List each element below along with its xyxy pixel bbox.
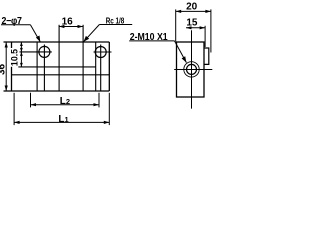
side view tab <box>204 48 209 64</box>
thread hole inner circle <box>187 64 197 74</box>
svg-text:L1: L1 <box>58 114 68 125</box>
svg-text:Rc 1/8: Rc 1/8 <box>106 15 125 25</box>
arrow 10.5 mid down <box>20 48 23 52</box>
front view bottom edge (with 36 extension) <box>4 90 110 92</box>
arrow L2 right <box>94 103 100 106</box>
front view port axis line <box>82 25 84 91</box>
svg-text:2-M10 X1: 2-M10 X1 <box>130 32 168 43</box>
hole H2 vertical centerline <box>100 45 102 92</box>
arrow 20 right <box>205 10 211 13</box>
arrow 10.5 mid up <box>20 52 23 56</box>
dimension 20 left extension <box>175 9 177 41</box>
arrow 10.5 bottom <box>20 63 23 67</box>
svg-text:36: 36 <box>0 64 8 76</box>
thread hole vertical centerline <box>191 30 193 108</box>
front view top edge (with 36 extension) <box>4 41 110 43</box>
leader phi7 underline <box>1 24 30 26</box>
arrow 20 left <box>176 10 182 13</box>
dimension 10.5 line <box>20 42 22 67</box>
hole H2 horizontal centerline <box>94 51 112 53</box>
front view base line <box>12 74 110 76</box>
svg-text:15: 15 <box>186 17 198 28</box>
dimension 20 line <box>176 10 211 12</box>
leader phi7 diagonal <box>30 25 40 42</box>
dimension L2 right extension <box>98 93 100 108</box>
front view right edge <box>108 42 110 91</box>
leader M10 underline <box>129 40 174 42</box>
dimension L2 line <box>31 104 100 106</box>
arrow L1 right <box>104 121 110 124</box>
arrow 36 bottom <box>5 86 8 92</box>
svg-text:L2: L2 <box>60 96 70 107</box>
hole H2 circle <box>95 47 106 58</box>
svg-text:2−φ7: 2−φ7 <box>2 16 23 27</box>
leader Rc diagonal <box>84 25 100 42</box>
arrow 15 left <box>186 26 192 29</box>
dimension L2 left extension <box>30 93 32 108</box>
leader M10 diagonal <box>175 41 187 63</box>
arrow L1 left <box>14 121 20 124</box>
thread hole outer circle <box>184 62 199 77</box>
dimension 15 right extension <box>204 26 206 47</box>
arrow 16 right <box>78 25 84 28</box>
front view left edge <box>11 42 13 91</box>
dimension L1 left extension <box>13 93 15 125</box>
front view step line mid <box>18 66 95 68</box>
dimension 20 right extension <box>210 9 212 52</box>
hole H1 horizontal centerline <box>20 51 52 53</box>
leader Rc underline <box>99 24 132 26</box>
dimension 36 line <box>5 42 7 91</box>
arrow leader Rc <box>84 36 90 42</box>
dimension 16 line <box>59 26 83 28</box>
hole H1 vertical centerline <box>43 45 45 92</box>
front view inner edge A <box>36 42 38 91</box>
dimension 15 line <box>186 27 205 29</box>
arrow 36 top <box>5 42 8 48</box>
arrow leader M10 <box>182 56 187 62</box>
arrow 10.5 top <box>20 42 23 46</box>
svg-text:20: 20 <box>186 2 198 13</box>
dimension L1 right extension <box>108 93 110 125</box>
arrow 16 left <box>59 25 65 28</box>
side view outline <box>177 42 205 97</box>
arrow L2 left <box>31 103 37 106</box>
front view inner edge B <box>58 25 60 91</box>
dimension L1 line <box>14 121 109 123</box>
svg-text:10.5: 10.5 <box>9 49 19 66</box>
thread hole horizontal centerline <box>174 69 212 71</box>
hole H1 circle <box>39 46 50 57</box>
svg-text:16: 16 <box>62 16 74 27</box>
arrow leader phi7 <box>36 36 40 43</box>
front view inner edge C <box>95 42 97 91</box>
arrow 15 right <box>200 26 206 29</box>
label 10.5 background <box>10 48 18 67</box>
